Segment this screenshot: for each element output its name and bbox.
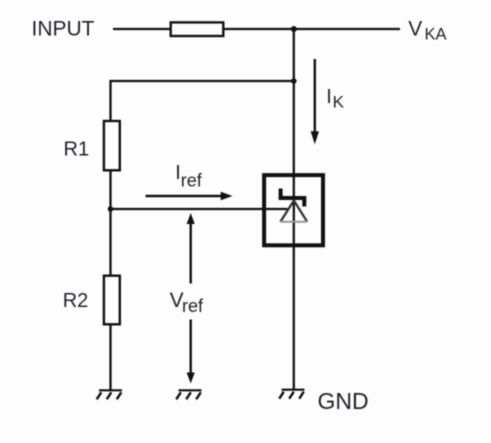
arrow: Vref upper arrow (pointing up) <box>187 213 195 284</box>
wire: top rail from INPUT to VKA <box>113 28 400 30</box>
resistor R2 <box>104 276 120 325</box>
label Vref <box>170 289 204 316</box>
arrow: Vref lower arrow (pointing down) <box>187 320 195 384</box>
wire: upper-left branch (cathode line to R1 top) <box>111 81 294 120</box>
svg-text:KA: KA <box>425 26 447 44</box>
svg-text:K: K <box>333 92 345 111</box>
resistor R3 (series input resistor) <box>171 22 224 36</box>
svg-text:INPUT: INPUT <box>32 17 95 40</box>
label IK <box>326 86 344 111</box>
label Iref <box>175 162 203 190</box>
svg-text:I: I <box>326 86 332 108</box>
ground: under Vref arrow <box>176 390 201 399</box>
svg-text:R1: R1 <box>64 139 90 161</box>
arrow: IK current arrow (pointing down) <box>311 59 319 144</box>
svg-text:ref: ref <box>181 170 203 190</box>
node: top junction dot <box>291 26 297 32</box>
ground: under TL431 <box>279 390 304 399</box>
svg-text:R2: R2 <box>63 290 89 312</box>
node: reference node junction dot <box>108 206 114 212</box>
svg-text:ref: ref <box>182 296 204 316</box>
ground: under R2 <box>97 390 122 399</box>
transistor U1 internals: anode triangle base (light) <box>280 221 307 223</box>
transistor U1 internals: anode triangle sides <box>280 201 307 222</box>
wire: cathode vertical line (top rail to ground) <box>293 29 295 390</box>
resistor R1 <box>104 121 120 170</box>
arrow: Iref current arrow <box>146 192 233 201</box>
svg-text:GND: GND <box>318 388 369 414</box>
op-amp U1 TL431 box <box>264 175 323 245</box>
svg-text:V: V <box>408 18 422 41</box>
wire: left vertical (R1 to node to R2 to ground) <box>109 120 111 390</box>
node: junction dot on cathode line <box>291 78 297 84</box>
label VKA <box>408 18 446 44</box>
wire: reference node line to TL431 ref pin <box>111 208 289 210</box>
transistor U1 internals: zener cathode bar with hooks <box>279 189 307 207</box>
